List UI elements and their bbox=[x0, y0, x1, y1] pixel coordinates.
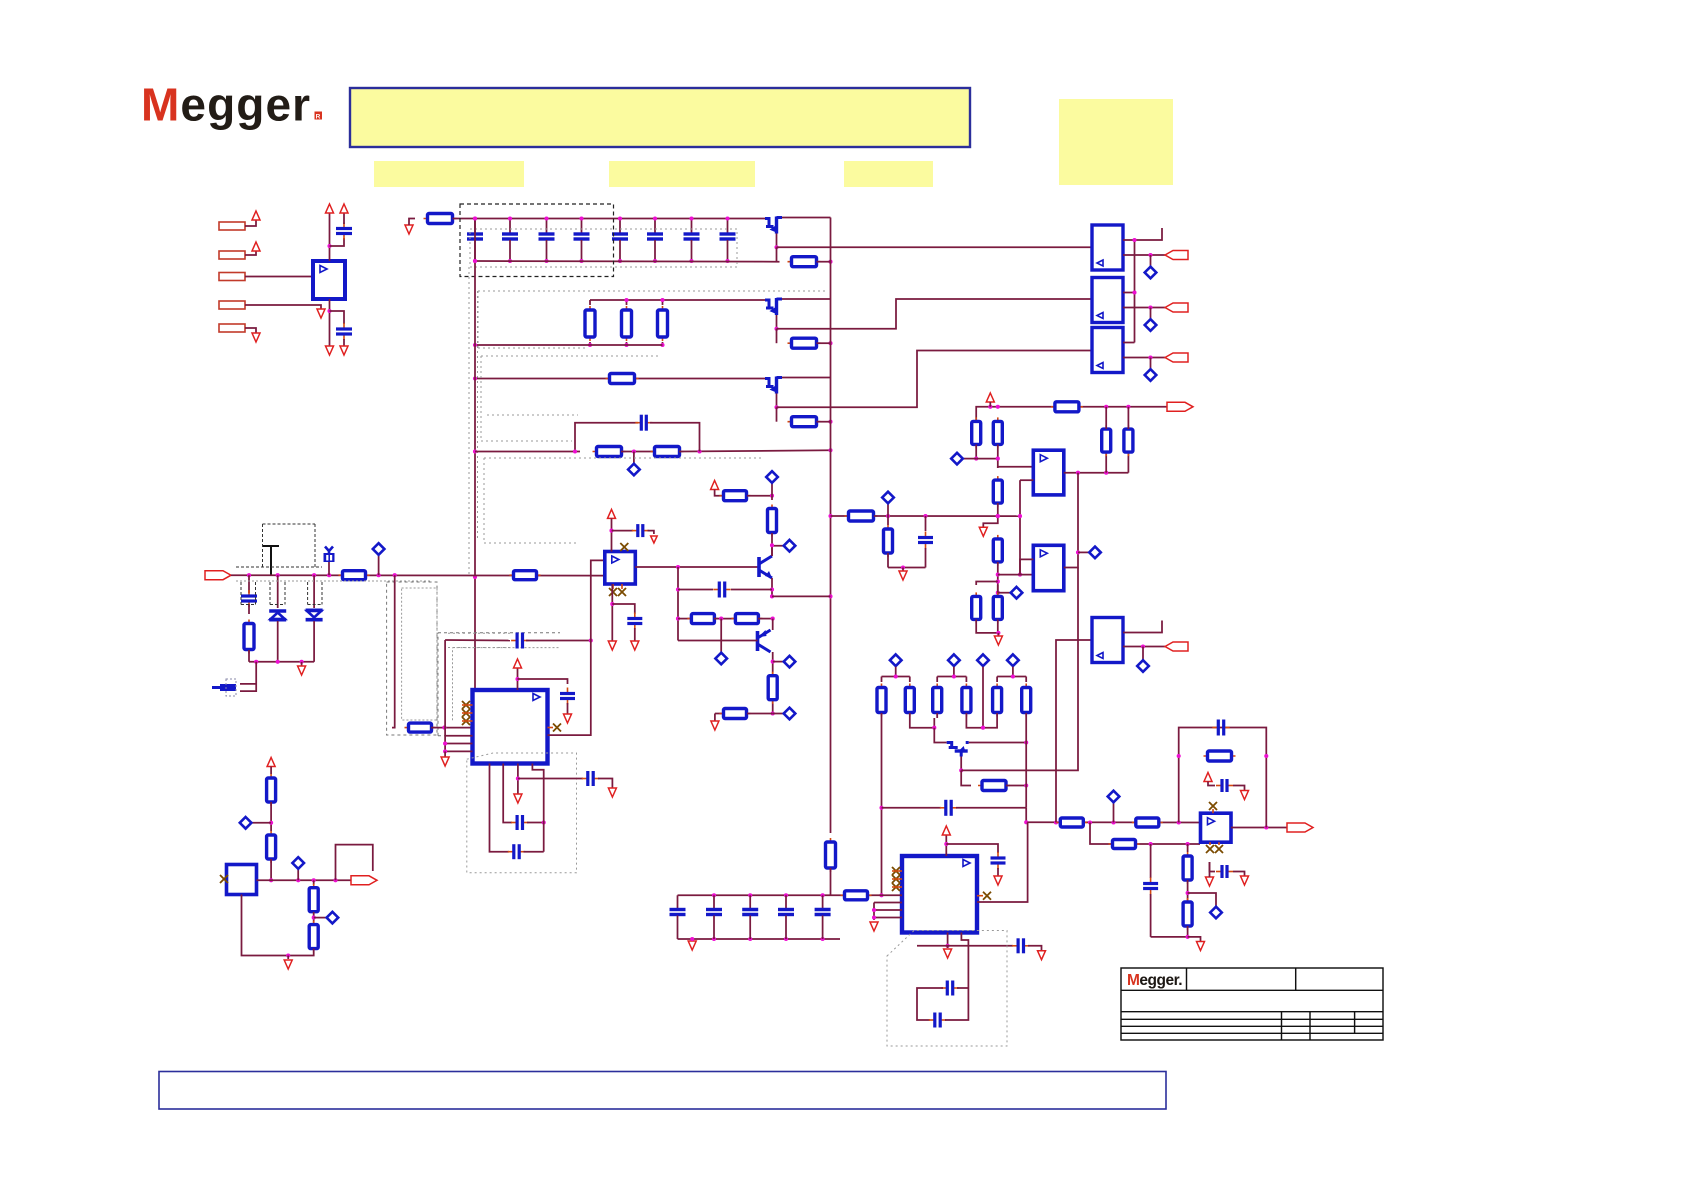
wire row2 to opto U3 bbox=[777, 299, 1093, 329]
capacitor bank C4 bbox=[581, 219, 583, 234]
wire cap5 top bus bbox=[678, 894, 831, 896]
wire cap branch r bbox=[956, 807, 1026, 809]
wire rail to IC1 bbox=[392, 575, 395, 727]
port P2 bbox=[219, 251, 245, 259]
wire Q4 emitter bbox=[771, 578, 773, 596]
resistor R Q5b bbox=[720, 713, 751, 715]
resistor R final v1 bbox=[1187, 844, 1189, 852]
wire cap rail pp bbox=[678, 589, 713, 591]
wire U6 out bbox=[635, 566, 757, 568]
wire c bot r bbox=[1028, 946, 1042, 950]
ground arrow c pwr bbox=[1241, 791, 1249, 800]
dashed box col outer bbox=[387, 582, 437, 735]
dotted box row2 bbox=[478, 290, 828, 292]
wire fb loop bbox=[1179, 728, 1267, 828]
power arrow U6 bbox=[608, 509, 616, 518]
antenna T bbox=[263, 546, 279, 575]
resistor bank R3 row2 bbox=[662, 300, 664, 305]
diamond q5 out bbox=[773, 713, 783, 715]
x mark IC2 right bbox=[983, 892, 991, 900]
svg-text:Megger: Megger bbox=[141, 79, 311, 131]
power arrow C in bbox=[340, 204, 348, 213]
yellow note box bbox=[1059, 99, 1173, 185]
wire U4 out1 bbox=[1123, 342, 1135, 344]
op-amp U6 bbox=[605, 552, 636, 585]
wire U11 below caps bbox=[1210, 862, 1216, 872]
wire final gnd bbox=[1188, 937, 1201, 941]
x mark U12 bbox=[220, 875, 228, 883]
svg-text:Megger.: Megger. bbox=[1127, 972, 1182, 989]
wire final opamp in2 bbox=[1199, 836, 1202, 844]
wire Q5 base bbox=[678, 640, 758, 642]
wire row1 riser bbox=[776, 247, 778, 261]
resistor R pp chain bbox=[771, 496, 773, 500]
wire secA v1 dn bbox=[975, 445, 977, 459]
wire U2 out1 bbox=[1123, 228, 1162, 240]
wire L bypass bbox=[336, 845, 373, 881]
resistor R final v2 bbox=[1187, 898, 1189, 930]
wire cap rail pp2 bbox=[731, 589, 772, 591]
wire feedback row bbox=[475, 451, 580, 453]
wire U6 top branch bbox=[612, 530, 634, 532]
resistor array R1 bbox=[881, 677, 883, 683]
ground arrow c bot bbox=[1038, 951, 1046, 960]
wire c box1 bbox=[527, 822, 544, 824]
wire fb mid bbox=[621, 451, 655, 453]
wire U10 out2 bbox=[1123, 646, 1165, 648]
wire IC1 top cap branch bbox=[518, 679, 568, 684]
IC2 dashed box bbox=[887, 931, 1007, 1047]
wire IC2 bot rail bbox=[917, 945, 1013, 947]
resistor R secA r4 bbox=[997, 535, 999, 566]
ground arrow div bbox=[287, 956, 289, 960]
wire bus right bbox=[830, 218, 832, 834]
port P4 bbox=[219, 301, 245, 309]
wire div top bbox=[270, 767, 272, 775]
wire cap5 bottom bus bbox=[678, 938, 841, 940]
mosfet Q3 bbox=[765, 379, 774, 387]
wire cap branch bbox=[882, 807, 942, 809]
wire Q2 drain to bus bbox=[782, 298, 831, 300]
wire row3 to opto U4 bbox=[777, 351, 1093, 408]
wire rail1 to caps bbox=[453, 218, 771, 220]
diamond U8 out bbox=[1078, 551, 1089, 553]
power arrow IC1 bbox=[514, 659, 522, 668]
capacitor C box2 bbox=[508, 851, 514, 853]
capacitor bank2 C5 bbox=[821, 893, 825, 897]
ground arrow P4 bbox=[317, 309, 325, 318]
resistor array R6 bbox=[1025, 677, 1027, 683]
resistor R input col bbox=[248, 620, 250, 654]
resistor bank R1 row2 bbox=[589, 300, 591, 305]
wire y640 to opamp column bbox=[526, 640, 591, 642]
wire fb cap right bbox=[650, 423, 700, 452]
wire fb bottom bbox=[1006, 785, 1026, 787]
wire c below bbox=[1233, 872, 1245, 877]
dotted box row1 bbox=[470, 229, 737, 267]
diamond div3 bbox=[314, 917, 326, 919]
capacitor bank C1 bbox=[474, 219, 476, 234]
wire div3 bbox=[313, 912, 315, 925]
x marks U6 bbox=[620, 543, 628, 551]
resistor R fb1 bbox=[593, 451, 626, 453]
resistor R rail1 bbox=[424, 218, 457, 220]
capacitor C input col bbox=[248, 575, 250, 593]
diamond Q5 c bbox=[773, 661, 783, 663]
wire box3 bbox=[957, 987, 968, 989]
diamond pp mid bbox=[720, 619, 722, 652]
wire div bottom bbox=[270, 859, 272, 880]
wire pushpull base col bbox=[677, 567, 679, 641]
title banner bbox=[350, 88, 970, 147]
diamond pair bbox=[998, 592, 1010, 594]
x mark U11 top bbox=[1209, 802, 1217, 810]
resistor R IC1 in bbox=[405, 727, 436, 729]
opto U2 bbox=[1092, 225, 1123, 270]
wire C out bottom bbox=[343, 339, 345, 346]
resistor R row1 bbox=[788, 261, 821, 263]
capacitor bank2 C4 bbox=[784, 893, 788, 897]
dashed box ic1 outer bbox=[437, 633, 439, 736]
resistor R secA rail bbox=[1051, 406, 1083, 408]
svg-text:R: R bbox=[316, 113, 321, 120]
wire row1 resistor to bus bbox=[817, 261, 831, 263]
wire div mid bbox=[270, 802, 272, 831]
power arrow U11 bbox=[1204, 773, 1212, 782]
wire 516 gnd rail bbox=[888, 567, 926, 569]
diamond U3 bbox=[1150, 308, 1152, 319]
device small D1 bbox=[325, 547, 333, 554]
wire U7 out bbox=[1064, 472, 1129, 474]
resistor R pair R bbox=[997, 585, 999, 593]
wire opto chain bbox=[1134, 240, 1136, 343]
capacitor C below bbox=[1216, 871, 1222, 873]
wire U3 out1 bbox=[1123, 292, 1135, 294]
port out U3 bbox=[1165, 303, 1188, 312]
wire IC2 out bbox=[977, 822, 1028, 902]
wire U6 top bbox=[611, 518, 613, 551]
wire div bottom rail bbox=[242, 895, 314, 956]
diamond array3 bbox=[1007, 654, 1019, 666]
dashed box col inner bbox=[402, 588, 437, 720]
wire Q4 collector bbox=[772, 546, 783, 556]
resistor R final C bbox=[1109, 843, 1140, 845]
diamond U10 bbox=[1142, 647, 1144, 660]
resistor R input2 bbox=[510, 574, 541, 576]
ground arrow U6 a bbox=[608, 641, 616, 650]
wire pp out bbox=[772, 595, 831, 597]
diamond 516 bbox=[887, 499, 889, 516]
wire U2 out2 bbox=[1123, 254, 1165, 256]
ground arrow C out bbox=[340, 346, 348, 355]
yellow label 2 bbox=[609, 161, 755, 187]
resistor R fb2 bbox=[651, 451, 684, 453]
ground arrow C IC1 bbox=[564, 714, 572, 723]
resistor R row3 bbox=[606, 378, 639, 380]
resistor R bus mid bbox=[830, 838, 832, 872]
ground arrow tvs bbox=[301, 662, 303, 666]
capacitor C final vert bbox=[1150, 878, 1152, 884]
yellow label 3 bbox=[844, 161, 933, 187]
IC U9 bbox=[902, 856, 977, 933]
wire port P2 bbox=[245, 251, 256, 255]
wire U4 out2 bbox=[1123, 357, 1165, 359]
capacitor C fb bbox=[635, 422, 641, 424]
resistor R input bbox=[339, 574, 370, 576]
resistor R pp1 bbox=[687, 618, 718, 620]
wire IC1 bottom pin4 bbox=[532, 764, 543, 852]
power arrow pp top bbox=[711, 481, 719, 490]
resistor R pp2 bbox=[731, 618, 762, 620]
power arrow U1 in bbox=[326, 204, 334, 213]
IC1 dashed box below bbox=[467, 753, 577, 873]
wire pair bottoms bbox=[976, 620, 998, 633]
wire final bottom bbox=[1151, 926, 1188, 937]
wire res row pp bbox=[678, 618, 691, 620]
wire U1 top bbox=[329, 213, 331, 261]
resistor array R4 bbox=[965, 677, 967, 683]
x marks IC2 left bbox=[892, 867, 900, 875]
opto U3 bbox=[1092, 278, 1123, 323]
resistor R final B bbox=[1132, 822, 1163, 824]
dotted box row3 bbox=[481, 355, 661, 357]
diamond U12 rail bbox=[297, 869, 299, 880]
diamond array passthru bbox=[977, 654, 989, 666]
capacitor C IC2 bbox=[997, 852, 999, 858]
op-amp U7 bbox=[1033, 450, 1064, 495]
ground arrow P5 bbox=[252, 333, 260, 342]
resistor R pp top bbox=[720, 495, 751, 497]
wire pin3 branch r bbox=[598, 779, 612, 789]
capacitor C 516 bbox=[925, 516, 927, 531]
wire pin3 branch bbox=[518, 778, 583, 780]
wire Q5 emitter top bbox=[772, 619, 774, 630]
wire secA v2 dn bbox=[998, 445, 1034, 467]
transistor Q5 pnp bbox=[756, 631, 760, 651]
wire Q3 drain to bus bbox=[782, 377, 831, 379]
capacitor bank2 C2 bbox=[712, 893, 716, 897]
wire U1 bottom bbox=[329, 299, 331, 346]
wire C in top bbox=[343, 213, 345, 224]
wire U8 out bbox=[1064, 473, 1078, 568]
wire q5 gnd bbox=[714, 714, 716, 722]
wire IC2 cap branch bbox=[946, 844, 998, 853]
ground arrow U6 b bbox=[631, 641, 639, 650]
power arrow IC2 bbox=[942, 826, 950, 835]
wire secA rail bbox=[976, 407, 1167, 421]
capacitor bank2 C1 bbox=[677, 895, 679, 908]
wire bus to rail bbox=[830, 868, 832, 895]
opto U4 bbox=[1092, 328, 1123, 373]
wire pp mid bbox=[714, 618, 735, 620]
diamond fb bbox=[633, 452, 635, 464]
wire cap vert final bbox=[1150, 844, 1152, 878]
dashed brackets tvs bbox=[240, 582, 242, 605]
wire IC1 bottom pin3 bbox=[517, 764, 519, 795]
wire 516 gnd branch bbox=[983, 503, 998, 527]
resistor R 516 down bbox=[887, 516, 889, 525]
wire 516 cont bbox=[874, 515, 1020, 517]
capacitor C pwr bbox=[1216, 785, 1222, 787]
ground arrow pin3 r bbox=[608, 788, 616, 797]
dashed box antenna bbox=[263, 523, 316, 525]
wire Q6 drain bbox=[969, 742, 1026, 744]
diamond input bbox=[378, 555, 380, 575]
ground arrow rail1 bbox=[405, 225, 413, 234]
port out U12 bbox=[351, 876, 377, 885]
capacitor bank C5 bbox=[619, 219, 621, 234]
resistor array R2 bbox=[909, 677, 911, 683]
IC U5 bbox=[473, 690, 548, 764]
wire main input rail bbox=[231, 574, 605, 576]
wire IC1 bottom pin1 bbox=[490, 764, 510, 852]
wire IC2 rail bbox=[831, 894, 903, 896]
port out U4 bbox=[1165, 353, 1188, 362]
power arrow P2 bbox=[252, 242, 260, 251]
transistor Q4 npn bbox=[757, 557, 761, 577]
wire rail final bbox=[1028, 821, 1200, 823]
dashed box ic1 inner bbox=[452, 648, 454, 721]
ground arrow P3 bbox=[317, 282, 325, 291]
capacitor bank C7 bbox=[691, 219, 693, 234]
wire port P4 bbox=[245, 305, 321, 309]
wire rail1 left bbox=[409, 219, 415, 226]
x mark IC1 right bbox=[553, 724, 561, 732]
ground arrow below1 bbox=[1206, 877, 1214, 886]
resistor R div1 bbox=[270, 774, 272, 806]
wire port P5 bbox=[245, 328, 256, 333]
resistor R final A bbox=[1056, 822, 1087, 824]
wire array passthru bbox=[982, 667, 984, 728]
capacitor C branch bbox=[940, 807, 946, 809]
ground arrow U1 out bbox=[326, 346, 334, 355]
yellow label 1 bbox=[374, 161, 524, 187]
wire c box2 bbox=[524, 851, 544, 853]
resistor R secA v2 bbox=[997, 417, 999, 448]
IC U12 bbox=[227, 865, 257, 895]
capacitor C out bbox=[343, 323, 345, 329]
wire U6 bottom branch bbox=[611, 584, 613, 641]
port out U10 bbox=[1165, 642, 1188, 651]
ground arrow IC2 pins bbox=[870, 922, 878, 931]
diamond div bbox=[252, 822, 271, 824]
capacitor C pin3 bbox=[582, 778, 588, 780]
wire port P1 bbox=[245, 220, 256, 226]
resistor R secA v1 bbox=[975, 417, 977, 448]
wire U7 in2 bbox=[1020, 479, 1033, 481]
port final out bbox=[1287, 823, 1313, 832]
diamond U4 bbox=[1150, 358, 1152, 369]
wire C IC1 dn bbox=[567, 703, 569, 714]
power arrow P1 bbox=[252, 211, 260, 220]
wire secA r3 bbox=[997, 467, 999, 468]
wire y516 branch bbox=[831, 515, 849, 517]
black dashed box cap bank bbox=[460, 204, 614, 277]
wire secA cross bbox=[976, 458, 998, 460]
capacitor C box4 bbox=[929, 1019, 935, 1021]
capacitor C box1 bbox=[511, 822, 517, 824]
op-amp U11 bbox=[1201, 813, 1232, 842]
wire crystal branch bbox=[240, 662, 256, 691]
dotted box fb row bbox=[484, 457, 762, 459]
wire row3 resistor to bus bbox=[817, 421, 831, 423]
wire U11 out bbox=[1231, 827, 1287, 829]
wire U6 branch right bbox=[612, 604, 635, 614]
x marks IC1 left bbox=[462, 701, 470, 709]
wire v3 top bbox=[1105, 407, 1107, 429]
capacitor C IC1 bbox=[567, 688, 569, 694]
diamond secA bbox=[963, 458, 976, 460]
port P3 bbox=[219, 273, 245, 281]
wire q5b bbox=[747, 713, 773, 715]
wire col6 bbox=[1025, 718, 1027, 808]
wire IC1 pins left low bbox=[444, 640, 446, 751]
bottom note box bbox=[159, 1072, 1166, 1110]
wire cap bank bottom bus bbox=[475, 260, 780, 263]
wire Q5 bottom bbox=[715, 713, 723, 715]
ground arrow IC1 pins bbox=[441, 757, 449, 766]
wire array bot bar2 bbox=[966, 718, 997, 728]
wire Q2 source bbox=[776, 315, 778, 329]
ground arrow U6 top bbox=[651, 536, 658, 543]
wire Q6 src dn bbox=[961, 770, 971, 785]
wire Q5 collector bbox=[772, 652, 774, 714]
wire row3 riser bbox=[776, 407, 778, 421]
wire U7 vert link bbox=[1019, 480, 1021, 574]
wire box4 bbox=[945, 988, 968, 1020]
dotted verticals main bus bbox=[468, 267, 470, 577]
wire U10 out1 bbox=[1123, 621, 1162, 633]
wire 516 r bottom bbox=[887, 553, 889, 568]
wire pp chain dn bbox=[771, 533, 773, 556]
diamond final v bbox=[1188, 893, 1216, 907]
wire U3 out2 bbox=[1123, 307, 1165, 309]
wire opto4 drop bbox=[1056, 640, 1092, 823]
wire R to IC1 bbox=[431, 727, 473, 729]
capacitor C U6 bbox=[634, 613, 636, 619]
regulator U1 bbox=[313, 261, 345, 299]
wire row1 to opto U2 bbox=[777, 246, 1093, 248]
wire pp2 to emitter bbox=[758, 618, 773, 620]
wire c pwr bbox=[1233, 786, 1245, 791]
diamond U2 bbox=[1150, 255, 1152, 266]
wire U12 out rail bbox=[257, 879, 352, 881]
wire array tbar3 bbox=[997, 676, 1026, 678]
ground arrow below2 bbox=[1241, 876, 1249, 885]
resistor R secA v3 bbox=[1105, 452, 1107, 473]
resistor R 516 bbox=[845, 515, 878, 517]
ground arrow secA bbox=[979, 527, 987, 536]
capacitor bank C8 bbox=[727, 219, 729, 234]
diamond array2 bbox=[948, 654, 960, 666]
wire IC2 top bbox=[945, 835, 947, 856]
power arrow div bbox=[267, 758, 275, 767]
ground arrow q5 bbox=[711, 721, 719, 730]
wire pp top bbox=[715, 490, 723, 496]
port P1 bbox=[219, 222, 245, 230]
wire IC1 right pin bbox=[548, 560, 605, 735]
wire c ic2 dn bbox=[997, 868, 999, 876]
ground arrow final bbox=[1197, 942, 1205, 951]
wire row3 rail bbox=[475, 378, 770, 380]
wire port P3 bbox=[245, 277, 321, 282]
resistor array R3 bbox=[936, 677, 938, 683]
title block bbox=[1121, 968, 1383, 1040]
port P5 bbox=[219, 324, 245, 332]
resistor bank R2 row2 bbox=[626, 300, 628, 305]
resistor array R5 bbox=[996, 677, 998, 683]
wire row2 bottom bus bbox=[475, 344, 663, 346]
